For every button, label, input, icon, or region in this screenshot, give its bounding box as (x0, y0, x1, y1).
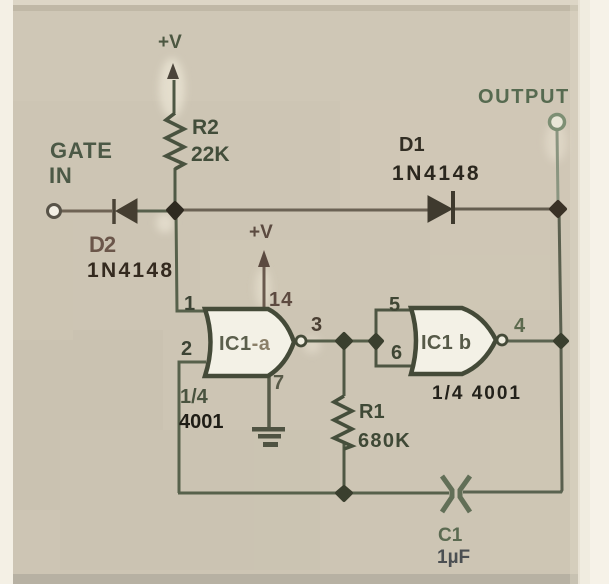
op-amp: NOR gate IC1-a (205, 309, 306, 376)
node D junction (pins 5-6 split) (370, 335, 382, 348)
wire: IC1-a output to node C (307, 340, 376, 343)
svg-text:D2: D2 (89, 232, 116, 257)
svg-text:D1: D1 (399, 134, 425, 156)
terminal: GATE IN open circle (48, 205, 61, 218)
svg-text:4001: 4001 (179, 411, 224, 433)
resistor R2 (166, 113, 184, 169)
svg-text:+V: +V (158, 32, 182, 53)
capacitor C1 (442, 476, 470, 512)
node F junction (R1 bottom / rail) (337, 487, 351, 500)
svg-text:2: 2 (181, 338, 192, 360)
svg-text:1µF: 1µF (437, 547, 470, 568)
node A junction (168, 203, 182, 218)
power +V top arrow (158, 32, 182, 79)
wire: pin 1 from node A down and into IC1-a (176, 211, 205, 311)
svg-text:5: 5 (389, 294, 400, 316)
diode D1 (428, 191, 453, 224)
svg-text:IN: IN (49, 163, 73, 188)
wire: pin 14 +V drop into IC1-a top (263, 267, 266, 311)
wire: pin 2 from IC1-a down to bottom rail (179, 362, 206, 493)
svg-text:R1: R1 (359, 401, 385, 423)
terminal: OUTPUT open circle (550, 115, 565, 130)
wire: C1 right plate to right rail (463, 491, 562, 494)
svg-text:OUTPUT: OUTPUT (478, 86, 570, 108)
svg-text:IC1 b: IC1 b (421, 332, 471, 354)
node C junction (IC1a out / R1) (337, 334, 351, 348)
wire: D2 to node A (136, 210, 175, 213)
wire: right rail node B down to pin4 node (559, 209, 561, 341)
svg-text:22K: 22K (191, 143, 230, 166)
svg-text:1/4 4001: 1/4 4001 (432, 383, 522, 404)
svg-text:1: 1 (184, 293, 195, 315)
wire: pin 5 loop (376, 310, 412, 341)
svg-text:680K: 680K (358, 430, 411, 452)
svg-text:+V: +V (249, 222, 273, 243)
wire: OUTPUT terminal drop to node B (557, 130, 558, 203)
node B junction (551, 202, 565, 216)
svg-text:4: 4 (514, 315, 526, 337)
svg-text:R2: R2 (192, 116, 219, 139)
wire: D1 to node B (455, 208, 559, 211)
wire: bottom rail left segment to C1 (178, 492, 449, 495)
svg-text:6: 6 (391, 342, 402, 364)
svg-text:3: 3 (311, 314, 322, 336)
wire: node A to D1 (175, 209, 428, 212)
resistor R1 (334, 396, 352, 449)
wire: right rail pin4 node down to bottom corner (466, 341, 562, 492)
wire: pin 7 from IC1-a bottom to ground (267, 374, 271, 429)
svg-text:C1: C1 (438, 525, 463, 546)
svg-text:7: 7 (273, 372, 284, 394)
wire: pin 6 loop (376, 341, 412, 366)
ground (252, 427, 285, 447)
svg-text:1N4148: 1N4148 (87, 259, 174, 282)
op-amp: NOR gate IC1-b (411, 308, 507, 374)
svg-text:IC1-a: IC1-a (219, 333, 271, 355)
wire: pin 4 from IC1-b bubble to right rail (508, 340, 561, 343)
svg-text:14: 14 (269, 289, 293, 311)
wire: R2 branch from node A up to +V arrow (174, 168, 177, 211)
svg-text:1N4148: 1N4148 (392, 162, 481, 185)
node E junction (pin 4 / right rail) (555, 335, 567, 347)
diode D2 (114, 199, 137, 224)
power +V pin14 arrow (249, 222, 273, 267)
wire: GATE IN terminal to D2 (61, 210, 112, 213)
wire: R1 branch vertical (343, 341, 346, 396)
svg-text:GATE: GATE (50, 138, 113, 163)
svg-text:1/4: 1/4 (180, 386, 209, 408)
